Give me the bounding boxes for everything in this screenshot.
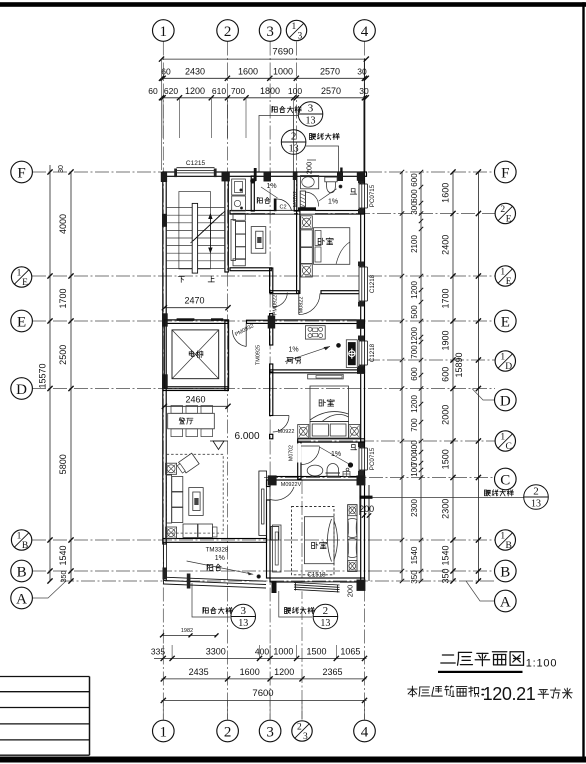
svg-text:600: 600 xyxy=(410,367,419,381)
svg-text:1: 1 xyxy=(500,532,505,542)
svg-text:1000: 1000 xyxy=(273,647,293,657)
svg-text:1600: 1600 xyxy=(240,667,260,677)
svg-text:2100: 2100 xyxy=(410,235,419,253)
svg-text:600: 600 xyxy=(410,173,419,187)
svg-text:E: E xyxy=(22,278,28,288)
svg-text:1%: 1% xyxy=(328,199,338,206)
svg-text:13: 13 xyxy=(320,618,330,629)
svg-text:30: 30 xyxy=(58,165,65,173)
svg-text:13: 13 xyxy=(289,144,299,155)
svg-text:60: 60 xyxy=(161,67,171,77)
svg-text:1: 1 xyxy=(160,24,168,40)
svg-text:D: D xyxy=(500,393,511,409)
svg-text:3: 3 xyxy=(298,32,303,42)
svg-text:F: F xyxy=(501,165,509,181)
svg-text:M0702: M0702 xyxy=(293,191,299,207)
svg-text:1600: 1600 xyxy=(441,183,451,203)
svg-text:1: 1 xyxy=(17,532,22,542)
svg-text:2470: 2470 xyxy=(184,296,204,306)
svg-text:D: D xyxy=(505,362,512,372)
svg-text:3: 3 xyxy=(308,103,314,115)
svg-text:3: 3 xyxy=(266,24,274,40)
svg-text:E: E xyxy=(506,215,512,225)
svg-text:500: 500 xyxy=(410,305,419,319)
svg-text:B: B xyxy=(506,541,512,551)
svg-text:2365: 2365 xyxy=(322,667,342,677)
svg-text:1%: 1% xyxy=(331,451,341,458)
svg-text:M0822: M0822 xyxy=(299,297,305,314)
svg-text:1500: 1500 xyxy=(441,449,451,469)
svg-text:350: 350 xyxy=(61,571,68,583)
svg-text:C1218: C1218 xyxy=(369,343,376,362)
svg-text:1800: 1800 xyxy=(260,86,280,96)
svg-text:2435: 2435 xyxy=(189,667,209,677)
svg-text:1700: 1700 xyxy=(58,288,68,308)
svg-text:700: 700 xyxy=(231,86,245,96)
svg-text:13: 13 xyxy=(531,499,541,510)
svg-text:700: 700 xyxy=(410,345,419,359)
svg-text:M0702: M0702 xyxy=(289,445,295,461)
svg-text:TM3328: TM3328 xyxy=(206,547,229,554)
svg-text:B: B xyxy=(22,541,28,551)
svg-text:2: 2 xyxy=(500,205,505,215)
svg-text:2400: 2400 xyxy=(441,235,451,255)
svg-text:400: 400 xyxy=(255,647,269,657)
svg-text:2: 2 xyxy=(297,723,302,733)
svg-text:1900: 1900 xyxy=(441,330,451,350)
svg-text:M0922V: M0922V xyxy=(281,482,302,488)
svg-text:13: 13 xyxy=(306,116,316,127)
svg-text:C1215: C1215 xyxy=(186,160,206,167)
svg-text:PC0715: PC0715 xyxy=(369,184,376,207)
svg-text:300: 300 xyxy=(410,201,419,215)
svg-text:4: 4 xyxy=(361,24,369,40)
svg-text:TM0925: TM0925 xyxy=(256,345,262,365)
svg-text:2430: 2430 xyxy=(185,67,205,77)
svg-text:1982: 1982 xyxy=(181,628,193,634)
svg-text:1200: 1200 xyxy=(410,281,419,299)
svg-text:30: 30 xyxy=(357,67,367,77)
svg-text:1600: 1600 xyxy=(238,67,258,77)
svg-text:1: 1 xyxy=(500,433,505,443)
svg-text:D: D xyxy=(16,382,27,398)
svg-text:620: 620 xyxy=(164,86,178,96)
svg-text:PM0922: PM0922 xyxy=(273,295,279,316)
svg-text:2: 2 xyxy=(224,24,232,40)
svg-text:2570: 2570 xyxy=(321,86,341,96)
svg-text:1:100: 1:100 xyxy=(526,658,558,670)
svg-text:1: 1 xyxy=(17,269,22,279)
svg-text:15890: 15890 xyxy=(454,352,464,377)
svg-text:120.21: 120.21 xyxy=(483,684,536,704)
svg-text:3: 3 xyxy=(240,605,246,617)
svg-text:200: 200 xyxy=(359,504,374,514)
svg-text:350: 350 xyxy=(441,568,451,583)
svg-text:C: C xyxy=(506,442,512,452)
svg-text:1200: 1200 xyxy=(185,86,205,96)
svg-text:1%: 1% xyxy=(288,347,298,354)
svg-text:2300: 2300 xyxy=(441,499,451,519)
svg-text:1065: 1065 xyxy=(340,647,360,657)
svg-text:1540: 1540 xyxy=(58,545,68,565)
svg-text:2: 2 xyxy=(224,724,232,740)
svg-text:1%: 1% xyxy=(266,183,276,190)
svg-text:200: 200 xyxy=(346,585,355,598)
svg-text:610: 610 xyxy=(212,86,226,96)
svg-text:2570: 2570 xyxy=(320,67,340,77)
svg-text:4: 4 xyxy=(361,724,369,740)
svg-text:E: E xyxy=(17,314,26,330)
svg-text:13: 13 xyxy=(238,618,248,629)
svg-text:C: C xyxy=(500,472,510,488)
svg-text:PC0715: PC0715 xyxy=(369,447,376,470)
svg-text:1700: 1700 xyxy=(441,288,451,308)
svg-text:7600: 7600 xyxy=(252,688,273,699)
svg-text:60: 60 xyxy=(148,86,158,96)
svg-text:400: 400 xyxy=(410,440,419,454)
svg-text:2300: 2300 xyxy=(410,499,419,517)
svg-text:B: B xyxy=(500,564,510,580)
svg-text:600: 600 xyxy=(441,367,451,382)
svg-text:7690: 7690 xyxy=(272,47,293,58)
svg-text:2: 2 xyxy=(533,486,539,498)
svg-text:15570: 15570 xyxy=(38,363,48,388)
svg-text:1200: 1200 xyxy=(274,667,294,677)
svg-text:1500: 1500 xyxy=(306,647,326,657)
svg-text:1200: 1200 xyxy=(410,395,419,413)
svg-text:1200: 1200 xyxy=(410,327,419,345)
svg-text:1%: 1% xyxy=(215,555,225,562)
svg-text:M0922: M0922 xyxy=(278,429,295,435)
svg-text:1: 1 xyxy=(500,353,505,363)
svg-text:1: 1 xyxy=(292,22,297,32)
svg-text:F: F xyxy=(17,165,25,181)
svg-text:2000: 2000 xyxy=(441,405,451,425)
svg-text:2: 2 xyxy=(291,131,297,143)
svg-text:C1218: C1218 xyxy=(369,274,376,293)
svg-text:1000: 1000 xyxy=(273,67,293,77)
svg-text:B: B xyxy=(17,564,27,580)
svg-text:3300: 3300 xyxy=(206,647,226,657)
svg-text:1540: 1540 xyxy=(410,546,419,564)
svg-text:2460: 2460 xyxy=(185,394,205,404)
svg-text:100: 100 xyxy=(410,463,419,477)
svg-text:5800: 5800 xyxy=(58,454,68,474)
svg-text:3: 3 xyxy=(303,732,308,742)
svg-text:4000: 4000 xyxy=(58,214,68,234)
svg-text:E: E xyxy=(506,277,512,287)
svg-text:2500: 2500 xyxy=(58,345,68,365)
svg-text:1: 1 xyxy=(500,268,505,278)
svg-text:1: 1 xyxy=(160,724,168,740)
svg-text:A: A xyxy=(500,594,511,610)
svg-text:600: 600 xyxy=(410,189,419,203)
svg-text:100: 100 xyxy=(288,86,302,96)
svg-text:1540: 1540 xyxy=(441,545,451,565)
svg-text:6.000: 6.000 xyxy=(234,431,259,442)
svg-text:2: 2 xyxy=(323,605,329,617)
svg-text:350: 350 xyxy=(410,570,419,584)
svg-text:E: E xyxy=(501,314,510,330)
svg-text:700: 700 xyxy=(410,418,419,432)
svg-text:A: A xyxy=(16,591,27,607)
svg-text:3: 3 xyxy=(266,724,274,740)
svg-text:C2: C2 xyxy=(279,205,286,211)
